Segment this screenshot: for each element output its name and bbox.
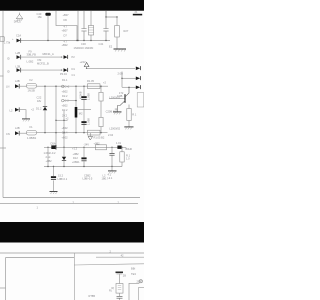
- svg-text:D1: D1: [72, 67, 76, 71]
- svg-text:+0B2: +0B2: [46, 159, 53, 163]
- svg-text:2.04: 2.04: [108, 133, 114, 137]
- svg-text:0.0B: 0.0B: [117, 94, 123, 98]
- svg-text:L.0B2: L.0B2: [27, 60, 34, 64]
- sheet2 frame tick: [0, 287, 6, 289]
- svg-text:1N0/1N0 1N0/0N: 1N0/1N0 1N0/0N: [74, 46, 94, 50]
- column x76 with thick cap bar: [75, 86, 77, 133]
- wire from top bar x56 with corner to x77: [56, 11, 77, 41]
- svg-text:R27: R27: [124, 29, 129, 33]
- sheet2 cap under resistor: [117, 296, 123, 298]
- svg-text:P0.04: P0.04: [60, 72, 67, 76]
- component box R2 on stub x91: [90, 11, 92, 41]
- vertical x45 with zener up: [44, 86, 46, 133]
- wire C-2 to column x76: [64, 100, 76, 102]
- left edge connector tab: [0, 37, 4, 41]
- svg-text:+B02: +B02: [62, 89, 69, 93]
- svg-text:2.0B: 2.0B: [118, 72, 124, 76]
- top horizontal bus: [21, 40, 110, 42]
- svg-text:+B02: +B02: [62, 136, 69, 140]
- svg-text:L2B: L2B: [16, 51, 21, 55]
- ground symbol row5: [22, 118, 30, 120]
- svg-text:4.7: 4.7: [64, 25, 68, 29]
- wire y109.5 from bar to x91: [77, 109, 91, 111]
- right end rail to ground: [111, 167, 113, 171]
- sheet2 top frame line: [0, 252, 144, 254]
- ground under emitter: [113, 111, 122, 113]
- fuse F1 body: [27, 130, 37, 135]
- svg-text:1.0B8: 1.0B8: [87, 93, 91, 100]
- svg-text:RTB5: RTB5: [89, 294, 96, 298]
- svg-text:+B07: +B07: [63, 13, 70, 17]
- capacitor C30 on stub x84: [81, 11, 86, 41]
- svg-text:L0B/.0.1: L0B/.0.1: [58, 177, 68, 181]
- svg-text:C41: C41: [99, 42, 104, 46]
- svg-text:D1.1: D1.1: [62, 78, 68, 82]
- svg-text:R.1: R.1: [132, 112, 137, 116]
- svg-text:1.01: 1.01: [116, 141, 122, 145]
- transistor Q1 area: feed from rail: [121, 72, 123, 88]
- resistor R27: [115, 26, 120, 38]
- lower mid rail y132.7: [37, 132, 108, 134]
- upper mid rail y86.2: [37, 85, 109, 87]
- svg-text:2B: 2B: [123, 274, 126, 278]
- capacitor C40 body: [45, 13, 50, 16]
- svg-text:D12: D12: [73, 156, 78, 160]
- wire row2: [21, 56, 63, 58]
- middle black band between sheets: [0, 222, 144, 243]
- svg-text:1.0: 1.0: [126, 157, 130, 161]
- wire y147.3: [44, 146, 126, 148]
- svg-text:-24V: -24V: [84, 143, 90, 147]
- svg-text:M0F21_A: M0F21_A: [43, 52, 55, 56]
- svg-text:+1.2: +1.2: [72, 146, 78, 150]
- top-right wire y17: [106, 11, 117, 26]
- svg-text:4700B: 4700B: [78, 91, 82, 99]
- wire row3: [21, 69, 63, 71]
- resistor x122: [121, 147, 123, 166]
- frame tick left y148: [0, 147, 6, 149]
- svg-text:C2A: C2A: [16, 33, 21, 37]
- svg-text:D6: D6: [64, 18, 68, 22]
- capacitor plate sheet2: [116, 272, 124, 274]
- svg-text:D7: D7: [64, 34, 68, 38]
- ground symbol right-top: [114, 48, 127, 50]
- column x84 polarized cap: [83, 86, 85, 133]
- svg-text:D1.2: D1.2: [36, 106, 42, 110]
- svg-text:18v: 18v: [37, 99, 42, 103]
- svg-text:+24V: +24V: [80, 60, 86, 64]
- wire y87.3 to arrow: [122, 86, 136, 88]
- partial box right edge: [137, 93, 144, 107]
- svg-text:30B_FB: 30B_FB: [27, 53, 37, 57]
- arrow terminator row3: [64, 68, 68, 72]
- svg-text:D2.2: D2.2: [62, 94, 68, 98]
- svg-text:R1.05 B2: R1.05 B2: [94, 136, 105, 140]
- svg-text:+0B2: +0B2: [73, 152, 80, 156]
- capacitor C106 lower plates on x84: [81, 121, 86, 123]
- svg-text:C30: C30: [81, 42, 86, 46]
- svg-text:LN: LN: [6, 85, 9, 89]
- svg-text:M2: M2: [79, 112, 83, 116]
- svg-text:+B02: +B02: [62, 43, 69, 47]
- svg-text:B|N: B|N: [131, 266, 135, 270]
- svg-text:+B02: +B02: [62, 126, 69, 130]
- svg-text:+B07: +B07: [62, 29, 69, 33]
- wire resistor to ground: [116, 37, 118, 49]
- svg-text:TE3: TE3: [131, 272, 136, 276]
- svg-text:L0B/-0.5: L0B/-0.5: [83, 177, 93, 181]
- svg-text:1N.5B: 1N.5B: [28, 89, 35, 93]
- arrow terminator row2: [64, 55, 68, 59]
- fuse F2 body: [27, 84, 37, 89]
- collector resistor to ground: [128, 105, 130, 127]
- arrow terminator +24V rail: [136, 67, 140, 71]
- column x101 resistors: [100, 86, 102, 133]
- net ladder labels mid: [62, 78, 70, 117]
- ground under collector resistor: [124, 126, 133, 128]
- lower rail y166.5: [44, 166, 122, 168]
- svg-text:18n: 18n: [38, 15, 43, 19]
- net label column A: [62, 13, 70, 44]
- svg-text:D2.2: D2.2: [62, 108, 68, 112]
- diode down x64: [63, 147, 65, 166]
- wire y78.3 to arrow: [122, 77, 136, 79]
- svg-text:B0H0: B0H0: [126, 147, 133, 151]
- svg-text:MCF21_B: MCF21_B: [37, 61, 49, 65]
- svg-text:(-2.1: (-2.1: [107, 176, 113, 180]
- ground arrow under rail: [89, 133, 91, 137]
- wire y120.3: [56, 119, 68, 121]
- junction dots upper rail: [44, 86, 101, 102]
- svg-text:P2: P2: [72, 55, 76, 59]
- svg-text:C+2: C+2: [65, 84, 70, 88]
- junction dots on bus: [47, 40, 106, 41]
- ground symbol bottom left: [50, 191, 58, 193]
- earth symbol top-left: [16, 13, 23, 21]
- vertical x64: [63, 111, 65, 148]
- svg-text:DRD2: DRD2: [14, 20, 22, 24]
- svg-text:E2: E2: [109, 45, 113, 49]
- svg-text:L2B: L2B: [15, 126, 20, 130]
- svg-text:1.0B/B1: 1.0B/B1: [27, 136, 37, 140]
- cap blob x84 between wires: [83, 147, 85, 166]
- sheet1 bottom frame line: [3, 197, 140, 199]
- capacitor C41 on stub x106: [103, 11, 108, 41]
- svg-text:D5A: D5A: [51, 141, 56, 145]
- svg-text:ID: ID: [7, 69, 10, 73]
- vertical x48 wire147 to rail166: [47, 147, 49, 166]
- sheet1 left frame border: [2, 11, 4, 198]
- svg-text:L2B: L2B: [16, 64, 21, 68]
- svg-text:L.73k: L.73k: [4, 41, 11, 45]
- svg-text:C1: C1: [72, 73, 76, 77]
- sheet2 connector pin circle: [139, 280, 142, 283]
- svg-text:D2.4: D2.4: [62, 131, 68, 135]
- box R1.05B on lower rail: [88, 130, 101, 135]
- sheet2 box corner bottom right: [139, 288, 145, 300]
- top black margin bar: [0, 0, 144, 11]
- sheet1 outer trim line: [0, 202, 138, 204]
- sheet2 left frame border: [5, 258, 7, 300]
- svg-text:1.0B2/-0.2: 1.0B2/-0.2: [44, 151, 57, 155]
- svg-text:ID: ID: [7, 56, 10, 60]
- svg-text:+B02: +B02: [62, 103, 69, 107]
- +24V rail: [87, 67, 135, 69]
- sheet2 title-block top line: [74, 264, 144, 265]
- svg-text:R1.05: R1.05: [87, 79, 94, 83]
- vertical x56: [55, 86, 57, 147]
- svg-text:CN: CN: [6, 132, 10, 136]
- wire C40 down to bus: [47, 16, 49, 41]
- cap x112: [111, 147, 113, 166]
- sheet2 wire from pin: [129, 283, 139, 300]
- svg-text:4.1: 4.1: [108, 172, 112, 176]
- bus stub x78: [77, 11, 79, 41]
- svg-text:L2B: L2B: [15, 79, 20, 83]
- small black bar top right: [133, 14, 142, 16]
- svg-text:R|: R|: [112, 286, 115, 290]
- svg-text:R|: R|: [109, 289, 112, 293]
- svg-text:+0B21: +0B21: [72, 160, 80, 164]
- svg-text:1.0B8: 1.0B8: [87, 118, 91, 125]
- sheet2 inner vertical frame line: [73, 253, 75, 300]
- cap to ground bottom left: [53, 167, 55, 192]
- wire cap to resistor: [119, 274, 121, 283]
- sheet2 resistor R1: [116, 284, 123, 294]
